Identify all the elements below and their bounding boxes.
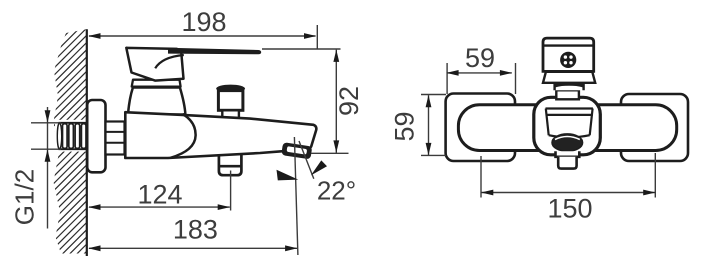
handle column (128, 88, 185, 115)
diverter stub tube (558, 157, 576, 169)
dimension 59 vertical (421, 95, 446, 156)
dimension 198 (89, 25, 317, 49)
handle head (126, 48, 183, 81)
dimension 124 (89, 171, 231, 211)
svg-text:150: 150 (547, 194, 592, 224)
diverter knob cylinder (218, 91, 243, 111)
aerator at spout tip (281, 142, 312, 159)
diverter front oval (552, 134, 583, 151)
handle column collar (132, 80, 181, 87)
dimension 59 horizontal (447, 63, 516, 94)
cartridge frame band (546, 109, 593, 138)
front knob neck (555, 85, 584, 91)
handle lever bar (168, 48, 261, 55)
dimension G1/2 (31, 107, 61, 229)
diverter stub collar (556, 151, 580, 157)
G1/2 threaded pipe (57, 123, 86, 149)
svg-text:183: 183 (173, 215, 218, 245)
wall face line (86, 29, 88, 256)
wall hatch (50, 0, 90, 266)
svg-text:59: 59 (390, 111, 420, 141)
svg-text:G1/2: G1/2 (10, 169, 40, 225)
front knob skirt (543, 72, 595, 83)
wall flange (escutcheon) (87, 100, 105, 172)
spout internal D-arc (171, 114, 196, 158)
diverter knob cap (216, 85, 245, 93)
svg-text:22°: 22° (317, 176, 356, 206)
knob screw (560, 52, 576, 68)
dimension 150 (481, 153, 655, 198)
connector nut (106, 122, 125, 155)
body pill (458, 105, 676, 151)
faucet body side view (125, 112, 316, 158)
left wall plate (446, 94, 515, 162)
right wall plate (621, 94, 688, 161)
G1/2 thread white backing (55, 120, 87, 152)
svg-text:92: 92 (334, 86, 364, 116)
dimension 183 (89, 137, 298, 255)
diverter knob stem (222, 110, 239, 119)
angle 22 annotation (299, 141, 314, 179)
svg-text:59: 59 (465, 43, 495, 73)
dimension 92 (262, 49, 349, 153)
shower outlet nut (219, 153, 242, 175)
front knob (lever end view) (543, 38, 594, 71)
center body (534, 97, 601, 155)
handle inner curve (155, 55, 184, 68)
svg-text:198: 198 (181, 7, 226, 37)
svg-text:124: 124 (137, 180, 182, 210)
front knob tube (556, 90, 579, 99)
